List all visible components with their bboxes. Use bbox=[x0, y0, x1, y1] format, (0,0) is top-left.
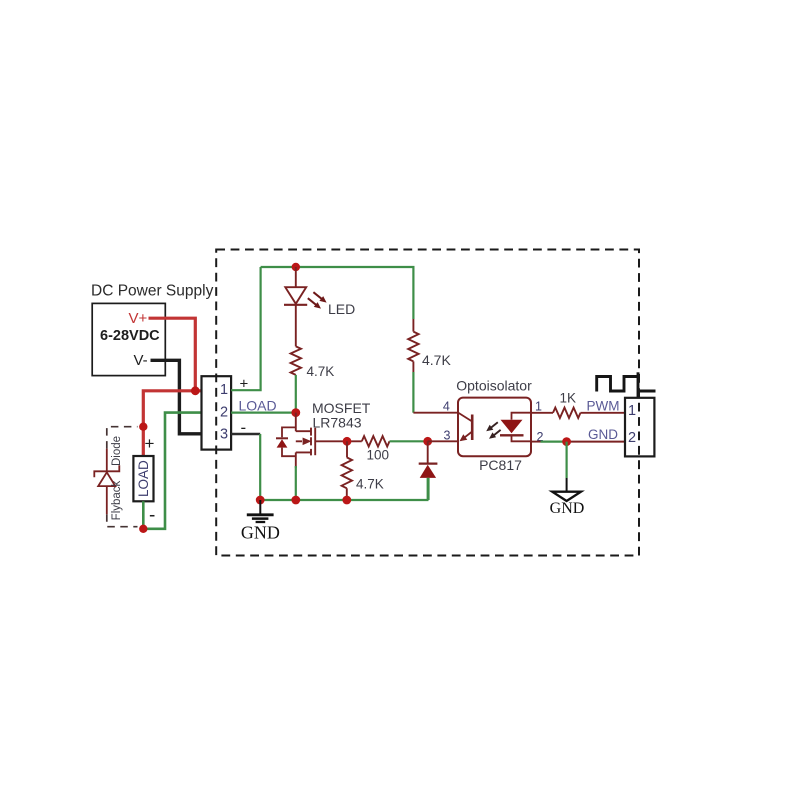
resistor R2 4.7K bbox=[408, 332, 418, 362]
svg-text:Diode: Diode bbox=[111, 436, 123, 466]
svg-text:DC Power Supply: DC Power Supply bbox=[91, 283, 214, 300]
svg-text:GND: GND bbox=[241, 523, 280, 543]
wire R1 to LOAD node bbox=[295, 375, 297, 413]
svg-text:2: 2 bbox=[628, 430, 636, 446]
wire green J1 pin1 to top rail bbox=[231, 267, 261, 390]
op-to U1 box PC817 bbox=[458, 398, 531, 457]
wire opto pin1 to R5 bbox=[531, 412, 553, 414]
LED D1 bbox=[284, 287, 307, 305]
svg-text:V+: V+ bbox=[129, 310, 148, 327]
svg-text:4: 4 bbox=[443, 399, 450, 413]
wire source to ground rail bbox=[295, 466, 297, 500]
load box LOAD bbox=[133, 456, 153, 501]
svg-text:LR7843: LR7843 bbox=[313, 415, 362, 431]
svg-text:1: 1 bbox=[220, 382, 228, 398]
wire top rail bbox=[261, 267, 414, 319]
svg-text:100: 100 bbox=[367, 448, 390, 463]
svg-text:LED: LED bbox=[328, 301, 355, 317]
node rail source bbox=[291, 496, 300, 505]
svg-text:PWM: PWM bbox=[587, 398, 620, 413]
wire LED cathode to R1 bbox=[295, 305, 297, 347]
connector J2 box bbox=[625, 398, 654, 457]
node gate clamp bbox=[423, 437, 432, 446]
svg-text:1: 1 bbox=[535, 399, 542, 413]
resistor R1 4.7K bbox=[291, 346, 301, 375]
resistor R3 100 bbox=[362, 436, 390, 446]
svg-text:6-28VDC: 6-28VDC bbox=[100, 328, 160, 344]
Q1 body diode bbox=[276, 427, 296, 456]
node load bottom bbox=[139, 525, 147, 533]
transistor Q1 MOSFET bbox=[296, 413, 315, 468]
svg-text:PC817: PC817 bbox=[479, 457, 522, 473]
flyback schottky diode D2 bbox=[94, 449, 119, 515]
wire LED anode bbox=[295, 267, 297, 287]
svg-text:3: 3 bbox=[220, 426, 228, 442]
wire R3 to node bbox=[390, 440, 428, 442]
svg-text:V-: V- bbox=[134, 352, 148, 369]
node top rail bbox=[292, 263, 300, 271]
node junction V+ bbox=[191, 386, 200, 395]
wire GND net down bbox=[565, 442, 567, 478]
svg-text:1K: 1K bbox=[560, 391, 577, 406]
svg-text:LOAD: LOAD bbox=[239, 397, 277, 413]
power supply PS1 box bbox=[92, 303, 165, 375]
svg-text:Flyback: Flyback bbox=[111, 480, 123, 520]
wire red branch to load + and J1 pin1 bbox=[143, 391, 201, 427]
wire gate bbox=[315, 440, 362, 442]
node gate bbox=[343, 437, 352, 446]
svg-text:LOAD: LOAD bbox=[136, 460, 151, 497]
node rail R4 bbox=[342, 496, 351, 505]
wire rail to R2 bbox=[412, 319, 414, 332]
wire green load return bbox=[143, 413, 201, 529]
wire J1 pin3 to ground rail bbox=[231, 433, 260, 435]
svg-text:GND: GND bbox=[588, 427, 618, 442]
svg-text:3: 3 bbox=[444, 428, 451, 442]
node GND net bbox=[562, 437, 571, 446]
svg-text:4.7K: 4.7K bbox=[307, 364, 335, 379]
svg-text:-: - bbox=[149, 505, 155, 526]
wire R4 to ground rail bbox=[346, 488, 348, 500]
wire black V- from supply down bbox=[151, 360, 202, 434]
node drain LOAD bbox=[291, 408, 300, 417]
resistor R4 4.7K bbox=[342, 457, 352, 488]
wire R5 to J2 pin1 bbox=[581, 412, 626, 414]
wire red down to LOAD + bbox=[142, 427, 145, 456]
flyback dashed enclosure bbox=[107, 427, 138, 527]
U1 light arrows bbox=[486, 422, 500, 439]
ground symbol chevron bbox=[552, 492, 581, 501]
wire node to opto pin3 bbox=[428, 440, 458, 442]
svg-text:4.7K: 4.7K bbox=[422, 352, 451, 368]
resistor R5 1K bbox=[553, 408, 581, 418]
svg-text:GND: GND bbox=[550, 500, 585, 517]
PWM square wave icon bbox=[597, 372, 656, 398]
U1 internal LED bbox=[500, 413, 531, 442]
wire R2 to opto pin4 bbox=[412, 361, 414, 372]
connector J1 box bbox=[202, 376, 232, 449]
ground symbol GND bbox=[247, 500, 274, 522]
diode D3 gate clamp bbox=[419, 441, 438, 478]
wire red V+ from supply to junction bbox=[149, 318, 196, 391]
wire ground rail bbox=[260, 478, 428, 500]
svg-text:+: + bbox=[145, 434, 155, 453]
U1 phototransistor bbox=[459, 413, 473, 441]
node flyback top bbox=[139, 423, 147, 431]
node rail left bbox=[256, 496, 265, 505]
LED emission arrows bbox=[308, 292, 327, 308]
svg-text:1: 1 bbox=[628, 403, 636, 419]
svg-text:4.7K: 4.7K bbox=[356, 477, 384, 492]
svg-text:2: 2 bbox=[220, 404, 228, 420]
wire gate node to R4 bbox=[346, 441, 348, 457]
svg-text:Optoisolator: Optoisolator bbox=[456, 378, 532, 394]
module dashed boundary bbox=[216, 250, 639, 556]
wire opto pin2 to J2 pin2 bbox=[531, 441, 541, 443]
wire green LOAD net J1 pin2 to drain node bbox=[231, 412, 296, 414]
